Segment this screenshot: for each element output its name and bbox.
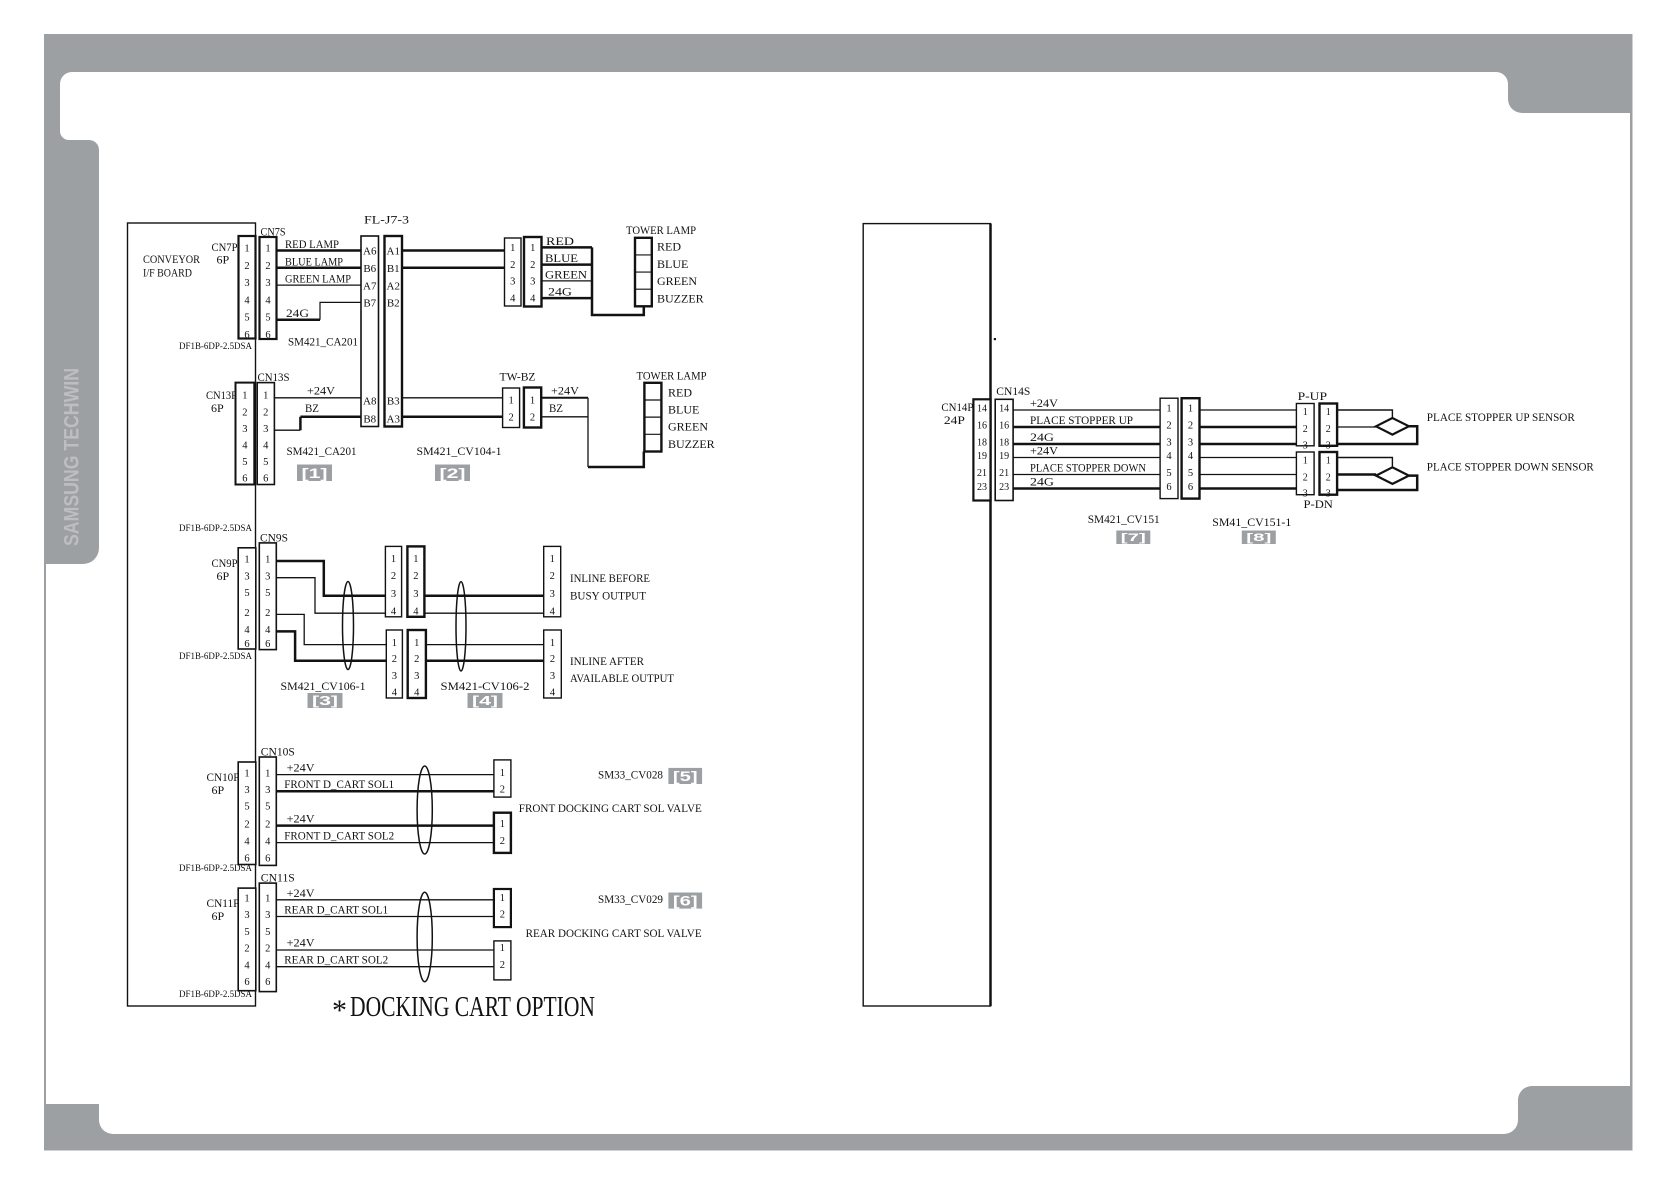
wire REAR D_CART SOL1 (276, 916, 494, 918)
wires CV151 to P-UP (1200, 409, 1297, 411)
svg-text:1: 1 (1326, 456, 1331, 467)
connector CN9P (238, 548, 256, 650)
svg-text:TOWER LAMP: TOWER LAMP (637, 369, 707, 383)
svg-text:+24V: +24V (287, 886, 315, 900)
connector CN7S (260, 237, 277, 341)
svg-text:SM33_CV029: SM33_CV029 (598, 892, 663, 906)
svg-text:3: 3 (392, 671, 397, 682)
wire 24G CN14S.23 (1013, 487, 1160, 490)
svg-text:5: 5 (1166, 468, 1171, 479)
svg-text:A8: A8 (363, 396, 377, 408)
svg-text:1: 1 (414, 638, 419, 649)
svg-text:18: 18 (977, 438, 987, 449)
svg-text:BUSY OUTPUT: BUSY OUTPUT (570, 589, 647, 603)
svg-text:1: 1 (265, 894, 270, 905)
connector CN10S (259, 757, 276, 865)
svg-text:SM421_CV104-1: SM421_CV104-1 (417, 444, 502, 458)
svg-text:1: 1 (1303, 407, 1308, 418)
svg-text:BZ: BZ (549, 401, 563, 415)
svg-text:1: 1 (265, 768, 270, 779)
svg-text:6: 6 (265, 639, 270, 650)
svg-text:2: 2 (500, 836, 505, 847)
svg-text:1: 1 (510, 243, 515, 254)
svg-text:+24V: +24V (307, 384, 335, 398)
svg-text:19: 19 (999, 451, 1009, 462)
connector CN13S (257, 383, 274, 485)
wire +24V CN11S.1 (276, 899, 494, 901)
svg-text:6P: 6P (211, 401, 224, 415)
connector FL-J7-3 A (361, 236, 379, 427)
svg-text:PLACE STOPPER UP SENSOR: PLACE STOPPER UP SENSOR (1427, 410, 1575, 424)
svg-text:3: 3 (530, 276, 535, 287)
svg-text:5: 5 (265, 313, 270, 324)
svg-text:[2]: [2] (440, 465, 466, 481)
svg-text:+24V: +24V (551, 384, 579, 398)
wire CN9S.4 available (276, 631, 386, 660)
svg-text:4: 4 (244, 625, 250, 636)
svg-text:2: 2 (244, 944, 249, 955)
svg-text:CN11P: CN11P (207, 896, 240, 910)
svg-text:[1]: [1] (302, 465, 328, 481)
svg-text:1: 1 (242, 391, 247, 402)
wire 24G CN7S.5 to B7 (277, 318, 321, 321)
svg-text:[7]: [7] (1121, 532, 1147, 544)
svg-text:18: 18 (999, 438, 1009, 449)
svg-text:1: 1 (244, 555, 249, 566)
place stopper down sensor diamond (1376, 467, 1409, 484)
cable bundle ellipse (417, 892, 432, 981)
svg-text:BUZZER: BUZZER (668, 437, 715, 451)
svg-text:FRONT D_CART SOL2: FRONT D_CART SOL2 (284, 829, 394, 843)
svg-text:+24V: +24V (1030, 444, 1058, 458)
svg-text:SAMSUNG TECHWIN: SAMSUNG TECHWIN (61, 368, 84, 546)
connector CN14P (973, 399, 990, 500)
svg-text:CN14S: CN14S (996, 384, 1030, 398)
svg-text:2: 2 (1166, 421, 1171, 432)
svg-text:5: 5 (244, 927, 249, 938)
svg-text:+24V: +24V (287, 812, 315, 826)
reference badge [3] (308, 693, 343, 708)
svg-text:SM421_CA201: SM421_CA201 (288, 335, 358, 349)
connector CN9S (259, 543, 276, 650)
svg-text:CN9P: CN9P (212, 556, 238, 570)
svg-text:2: 2 (500, 910, 505, 921)
svg-text:A2: A2 (387, 280, 400, 292)
cable bundle ellipse (417, 766, 432, 854)
svg-text:CONVEYOR: CONVEYOR (143, 252, 200, 266)
reference badge [1] (297, 465, 332, 482)
svg-text:DF1B-6DP-2.5DSA: DF1B-6DP-2.5DSA (179, 523, 252, 533)
wire +24V CN11S.2 (276, 949, 494, 951)
svg-text:DF1B-6DP-2.5DSA: DF1B-6DP-2.5DSA (179, 341, 252, 351)
svg-text:5: 5 (265, 927, 270, 938)
wire +24V CN14S.19 (1013, 457, 1160, 459)
svg-text:FRONT DOCKING CART SOL VALVE: FRONT DOCKING CART SOL VALVE (519, 801, 702, 815)
svg-text:FL-J7-3: FL-J7-3 (364, 213, 409, 227)
svg-text:24G: 24G (548, 285, 572, 299)
connector P-UP plug (1296, 404, 1314, 452)
connector inline after P (386, 630, 402, 699)
svg-text:[6]: [6] (673, 893, 698, 908)
svg-text:3: 3 (244, 785, 249, 796)
connector CN14S (995, 399, 1013, 500)
reference badge [7] (1116, 531, 1150, 545)
svg-text:CN10S: CN10S (261, 745, 295, 759)
svg-text:3: 3 (265, 910, 270, 921)
svg-text:GREEN: GREEN (668, 420, 708, 434)
svg-text:6P: 6P (217, 253, 230, 267)
svg-text:1: 1 (1326, 407, 1331, 418)
connector TW-BZ S (524, 388, 541, 428)
svg-text:2: 2 (414, 654, 419, 665)
wire PLACE STOPPER DOWN (1013, 474, 1160, 476)
svg-text:2: 2 (242, 407, 247, 418)
svg-text:REAR DOCKING CART SOL VALVE: REAR DOCKING CART SOL VALVE (526, 926, 702, 940)
svg-text:6: 6 (244, 639, 249, 650)
svg-text:SM421_CV106-1: SM421_CV106-1 (281, 679, 366, 693)
wire FRONT D_CART SOL1 (276, 790, 494, 793)
connector inline before OUT (544, 546, 561, 617)
wire BLUE LAMP CN7S.2 to B6 (277, 267, 362, 270)
svg-text:1: 1 (530, 243, 535, 254)
svg-text:6P: 6P (212, 783, 225, 797)
svg-text:REAR D_CART SOL1: REAR D_CART SOL1 (284, 903, 388, 917)
wire inline before return (424, 612, 543, 614)
wire FRONT D_CART SOL2 (276, 842, 494, 844)
svg-text:2: 2 (244, 608, 249, 619)
connector CN11S (259, 883, 276, 992)
svg-text:4: 4 (265, 295, 271, 306)
svg-text:4: 4 (263, 441, 269, 452)
svg-text:B1: B1 (387, 263, 400, 275)
svg-text:4: 4 (244, 960, 250, 971)
svg-text:2: 2 (265, 944, 270, 955)
svg-text:16: 16 (999, 421, 1009, 432)
wire B3 to TW-BZ pin1 (402, 397, 503, 399)
svg-text:1: 1 (263, 391, 268, 402)
svg-text:3: 3 (244, 571, 249, 582)
wire P-DN.2 to sensor (1337, 473, 1376, 476)
svg-text:6: 6 (1188, 482, 1193, 493)
svg-text:21: 21 (977, 468, 987, 479)
cable bundle ellipse (343, 582, 354, 670)
reference badge [6] (668, 893, 702, 909)
svg-text:INLINE AFTER: INLINE AFTER (570, 654, 644, 668)
svg-text:4: 4 (391, 606, 397, 617)
svg-text:1: 1 (550, 554, 555, 565)
connector front sol valve 1 (494, 760, 511, 797)
svg-text:5: 5 (244, 588, 249, 599)
svg-text:B6: B6 (363, 263, 376, 275)
svg-text:CN7S: CN7S (261, 225, 286, 239)
svg-text:5: 5 (242, 457, 247, 468)
svg-text:2: 2 (263, 407, 268, 418)
svg-text:4: 4 (265, 836, 271, 847)
wire bundle down to tower lamp 1 base (592, 247, 644, 315)
connector lamp plug P (505, 238, 522, 306)
wire +24V CN13S.1 to A8 (274, 397, 361, 399)
svg-text:2: 2 (530, 260, 535, 271)
svg-text:GREEN: GREEN (545, 267, 587, 281)
svg-text:I/F BOARD: I/F BOARD (143, 266, 192, 280)
svg-text:B2: B2 (387, 298, 400, 310)
svg-text:2: 2 (1303, 424, 1308, 435)
svg-text:4: 4 (242, 441, 248, 452)
svg-text:A6: A6 (363, 246, 377, 258)
svg-text:4: 4 (550, 606, 556, 617)
svg-text:5: 5 (265, 588, 270, 599)
svg-text:3: 3 (265, 785, 270, 796)
svg-text:GREEN: GREEN (657, 274, 697, 288)
svg-text:+24V: +24V (287, 936, 315, 950)
svg-text:4: 4 (1188, 451, 1194, 462)
svg-text:2: 2 (244, 819, 249, 830)
svg-text:1: 1 (530, 396, 535, 407)
right board thick right edge (989, 224, 992, 1006)
svg-text:GREEN LAMP: GREEN LAMP (285, 272, 351, 286)
wire 24G to tower lamp (542, 297, 593, 300)
svg-text:1: 1 (550, 638, 555, 649)
svg-text:DF1B-6DP-2.5DSA: DF1B-6DP-2.5DSA (179, 989, 252, 999)
wire available output (426, 660, 544, 663)
svg-text:2: 2 (265, 819, 270, 830)
svg-text:BLUE: BLUE (657, 257, 688, 271)
reference badge [8] (1242, 531, 1276, 545)
svg-text:BZ: BZ (305, 401, 319, 415)
svg-text:3: 3 (1188, 438, 1193, 449)
wire GREEN to tower lamp (542, 280, 593, 282)
connector inline before S (407, 546, 424, 617)
svg-text:14: 14 (977, 404, 987, 415)
svg-text:1: 1 (500, 893, 505, 904)
svg-text:5: 5 (1188, 468, 1193, 479)
wire REAR D_CART SOL2 (276, 966, 494, 968)
svg-text:BLUE LAMP: BLUE LAMP (285, 254, 343, 268)
wire A1 to lamp conn pin1 (402, 249, 505, 252)
connector lamp plug S (524, 237, 542, 307)
svg-text:PLACE STOPPER UP: PLACE STOPPER UP (1030, 413, 1133, 427)
svg-text:2: 2 (510, 260, 515, 271)
wire sensor return to P-UP.3 (1337, 426, 1417, 444)
svg-text:4: 4 (510, 294, 516, 305)
svg-text:3: 3 (550, 589, 555, 600)
svg-text:3: 3 (265, 278, 270, 289)
wire bundle down to tower lamp 2 base (587, 398, 589, 467)
svg-text:4: 4 (244, 836, 250, 847)
svg-text:24G: 24G (286, 306, 309, 320)
svg-text:CN10P: CN10P (207, 770, 240, 784)
svg-text:6: 6 (263, 474, 268, 485)
svg-text:6P: 6P (212, 909, 225, 923)
svg-text:DF1B-6DP-2.5DSA: DF1B-6DP-2.5DSA (179, 863, 252, 873)
svg-text:3: 3 (550, 671, 555, 682)
svg-text:SM421_CV151: SM421_CV151 (1088, 512, 1160, 526)
svg-text:+24V: +24V (287, 761, 315, 775)
svg-text:[5]: [5] (673, 769, 698, 784)
svg-text:4: 4 (265, 960, 271, 971)
svg-text:2: 2 (1326, 424, 1331, 435)
wire B1 to lamp conn pin2 (402, 267, 505, 270)
svg-text:2: 2 (392, 654, 397, 665)
place stopper up sensor diamond (1376, 418, 1409, 435)
wire RED to tower lamp (542, 246, 593, 249)
wire GREEN LAMP CN7S.3 to A7 (277, 284, 362, 286)
svg-text:DF1B-6DP-2.5DSA: DF1B-6DP-2.5DSA (179, 651, 252, 661)
wires CV151 to P-DN (1200, 457, 1297, 459)
wire A3 to TW-BZ pin2 (402, 416, 503, 419)
svg-text:2: 2 (550, 654, 555, 665)
connector CV151 plug S (1182, 398, 1200, 498)
connector inline after S (408, 630, 426, 699)
conveyor I/F board box (128, 223, 256, 1006)
svg-text:CN11S: CN11S (261, 871, 295, 885)
svg-text:REAR D_CART SOL2: REAR D_CART SOL2 (284, 953, 388, 967)
connector TW-BZ P (503, 388, 520, 428)
reference badge [5] (668, 768, 702, 784)
svg-text:SM33_CV028: SM33_CV028 (598, 768, 663, 782)
wire PLACE STOPPER UP (1013, 426, 1160, 429)
svg-text:BUZZER: BUZZER (657, 291, 704, 305)
svg-text:3: 3 (244, 278, 249, 289)
svg-text:2: 2 (550, 571, 555, 582)
wire P-UP.2 to sensor (1337, 426, 1376, 428)
connector CN11P (238, 888, 256, 991)
svg-text:1: 1 (392, 638, 397, 649)
svg-text:1: 1 (508, 396, 513, 407)
svg-text:4: 4 (414, 688, 420, 699)
svg-text:SM421-CV106-2: SM421-CV106-2 (441, 679, 530, 693)
svg-text:4: 4 (244, 295, 250, 306)
svg-text:A7: A7 (363, 280, 377, 292)
svg-text:6: 6 (1166, 482, 1171, 493)
wire CN9S.3 (276, 578, 385, 614)
svg-text:2: 2 (413, 571, 418, 582)
svg-text:P-DN: P-DN (1304, 497, 1334, 511)
svg-text:BLUE: BLUE (545, 251, 578, 265)
svg-text:3: 3 (242, 424, 247, 435)
connector P-DN socket (1320, 452, 1338, 500)
svg-text:4: 4 (1166, 451, 1172, 462)
svg-text:14: 14 (999, 404, 1009, 415)
wire CN9S.2 (276, 614, 386, 644)
svg-text:1: 1 (500, 819, 505, 830)
svg-text:24P: 24P (944, 413, 965, 427)
svg-text:2: 2 (530, 413, 535, 424)
svg-text:2: 2 (265, 261, 270, 272)
svg-text:RED: RED (657, 240, 681, 254)
svg-text:P-UP: P-UP (1298, 389, 1328, 403)
svg-text:4: 4 (392, 688, 398, 699)
wire BLUE to tower lamp (542, 263, 593, 266)
connector CN10P (238, 762, 256, 865)
svg-text:2: 2 (1326, 473, 1331, 484)
svg-text:FRONT D_CART SOL1: FRONT D_CART SOL1 (284, 777, 394, 791)
svg-text:2: 2 (391, 571, 396, 582)
svg-text:23: 23 (999, 482, 1009, 493)
svg-text:1: 1 (265, 244, 270, 255)
svg-text:SM41_CV151-1: SM41_CV151-1 (1212, 515, 1291, 529)
svg-text:1: 1 (500, 943, 505, 954)
svg-text:B3: B3 (387, 396, 400, 408)
connector front sol valve 2 (494, 813, 511, 853)
svg-text:1: 1 (1188, 404, 1193, 415)
svg-text:4: 4 (413, 606, 419, 617)
svg-text:INLINE BEFORE: INLINE BEFORE (570, 571, 650, 585)
svg-text:TW-BZ: TW-BZ (500, 370, 536, 384)
svg-text:2: 2 (1188, 421, 1193, 432)
connector CN7P (239, 236, 256, 341)
svg-text:2: 2 (500, 960, 505, 971)
connector CN13P (236, 383, 255, 485)
wire +24V CN10S.2 (276, 824, 494, 827)
svg-text:3: 3 (1166, 438, 1171, 449)
wire +24V CN14S.14 (1013, 409, 1160, 411)
svg-text:3: 3 (244, 910, 249, 921)
svg-text:23: 23 (977, 482, 987, 493)
wire BZ TW-BZ to tower lamp 2 (541, 416, 588, 418)
svg-text:6P: 6P (217, 569, 230, 583)
svg-text:TOWER LAMP: TOWER LAMP (626, 223, 696, 237)
wire sensor return to P-DN.3 (1337, 476, 1417, 490)
svg-text:CN13P: CN13P (206, 388, 237, 402)
svg-text:PLACE STOPPER DOWN: PLACE STOPPER DOWN (1030, 461, 1146, 475)
svg-text:SM421_CA201: SM421_CA201 (287, 444, 357, 458)
svg-text:6: 6 (265, 853, 270, 864)
connector rear sol valve 1 (494, 889, 511, 927)
svg-text:19: 19 (977, 451, 987, 462)
wire P-UP.1 to sensor (1337, 410, 1392, 418)
wire P-DN.1 to sensor (1337, 458, 1392, 468)
svg-text:2: 2 (1303, 473, 1308, 484)
svg-text:B7: B7 (363, 298, 376, 310)
svg-text:3: 3 (263, 424, 268, 435)
svg-text:3: 3 (414, 671, 419, 682)
svg-text:4: 4 (550, 688, 556, 699)
svg-text:DOCKING CART OPTION: DOCKING CART OPTION (350, 991, 595, 1023)
wire +24V TW-BZ to tower lamp 2 (541, 397, 588, 399)
reference badge [2] (435, 465, 470, 482)
reference badge [4] (468, 693, 503, 708)
svg-text:3: 3 (391, 589, 396, 600)
svg-text:4: 4 (265, 625, 271, 636)
svg-text:CN9S: CN9S (260, 531, 288, 545)
svg-text:[3]: [3] (312, 694, 338, 708)
svg-text:2: 2 (500, 785, 505, 796)
svg-text:1: 1 (1166, 404, 1171, 415)
svg-text:+24V: +24V (1030, 396, 1058, 410)
svg-text:5: 5 (244, 802, 249, 813)
svg-text:3: 3 (265, 571, 270, 582)
svg-text:A1: A1 (387, 246, 400, 258)
connector inline after OUT (544, 630, 562, 699)
svg-text:3: 3 (1326, 441, 1331, 452)
svg-text:24G: 24G (1030, 430, 1054, 444)
wire 24G CN14S.18 (1013, 443, 1160, 446)
svg-text:6: 6 (244, 330, 249, 341)
svg-text:RED: RED (668, 386, 692, 400)
svg-text:5: 5 (265, 802, 270, 813)
svg-text:6: 6 (244, 977, 249, 988)
svg-text:A3: A3 (387, 414, 401, 426)
svg-text:RED: RED (546, 234, 574, 248)
svg-text:CN14P: CN14P (941, 400, 973, 414)
svg-text:2: 2 (244, 261, 249, 272)
svg-text:1: 1 (265, 555, 270, 566)
svg-text:BLUE: BLUE (668, 403, 699, 417)
svg-text:3: 3 (413, 589, 418, 600)
svg-text:3: 3 (510, 276, 515, 287)
svg-text:[4]: [4] (472, 694, 498, 708)
